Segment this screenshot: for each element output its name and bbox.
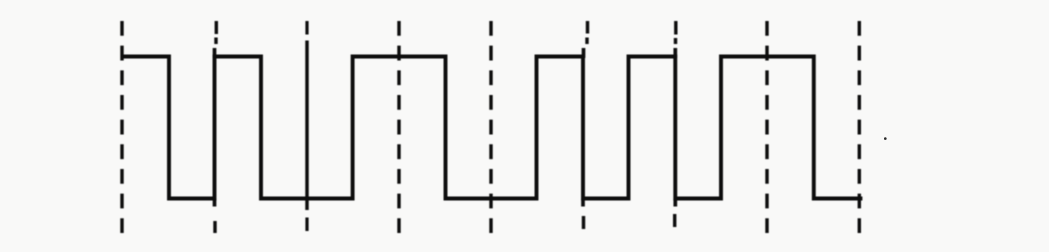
bit boundary dashed line t8 [858,21,861,233]
bit boundary dashed line t4 [489,21,492,233]
bit boundary dashed line t3 [397,21,400,233]
bit boundary dashed line t2 (dashes merged solid in scan) [305,21,308,231]
bit boundary dashed line t5 (overlapped by falling edge) [583,21,588,229]
Manchester-encoded signal trace [121,57,863,199]
bit boundary dashed line t7 [765,21,768,233]
bit boundary dashed line t0 [120,21,123,233]
bit boundary dashed line t6 (overlapped by falling edge) [675,21,676,227]
bit boundary dashed line t1 (overlapped by rising edge) [215,21,217,233]
ink speck [884,137,887,140]
